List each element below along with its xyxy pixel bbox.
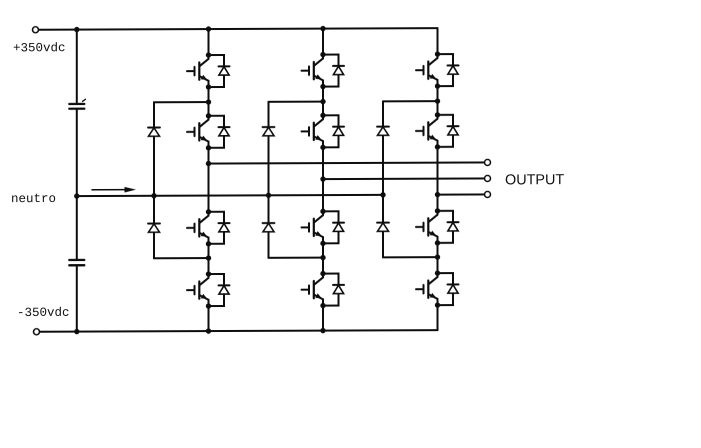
svg-text:-350vdc: -350vdc [17, 306, 70, 320]
svg-text:neutro: neutro [11, 192, 56, 206]
svg-text:OUTPUT: OUTPUT [505, 172, 564, 188]
svg-text:+350vdc: +350vdc [13, 41, 66, 55]
